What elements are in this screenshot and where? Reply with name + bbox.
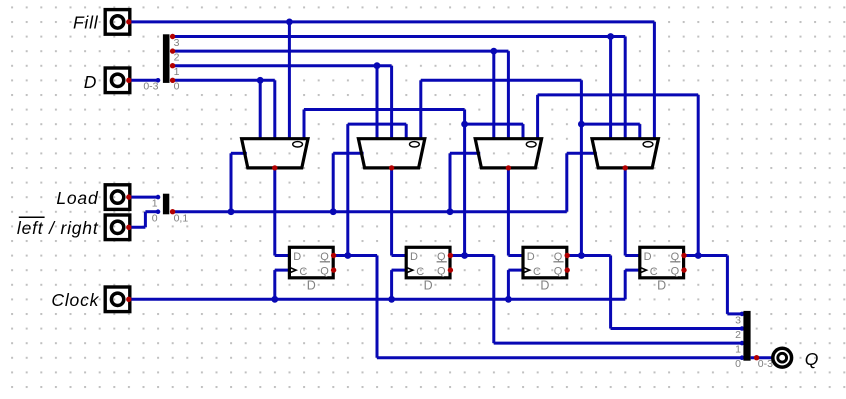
junction bit2 (490, 48, 497, 55)
wire FF1 Q to splitter horizontal (494, 342, 742, 345)
wire bit2 to MUX2 in3 (492, 51, 495, 139)
wire end dot (156, 209, 161, 214)
svg-text:C: C (650, 266, 658, 278)
wire Q1 to MUX0 in0 drop (303, 110, 306, 139)
label FF3 pin Q (671, 266, 680, 278)
wire FF1 Q to splitter drop (492, 256, 495, 344)
label FF2 pin D (527, 251, 535, 263)
label FF2 pin Qn (553, 251, 563, 263)
junction select MUX2 (447, 208, 454, 215)
wire left/right horizontal (129, 226, 146, 229)
svg-text:2: 2 (174, 52, 180, 64)
label S2 in1 (152, 198, 158, 210)
label left/right (17, 217, 99, 238)
wire select riser MUX1 (332, 153, 335, 211)
wire Q1 to MUX0 in0 horizontal (304, 108, 465, 111)
wire Q2 to MUX1 in0 horizontal (421, 79, 582, 82)
label FF0 pin Qn (320, 251, 330, 263)
wire clock riser FF2 (507, 270, 510, 299)
svg-text:Q: Q (437, 251, 446, 263)
wire Q1 branch horizontal (465, 123, 523, 126)
wire bit1 to MUX1 in2 (390, 66, 393, 139)
wire Q2 to MUX1 in0 drop (419, 80, 422, 138)
label S3 in3 (735, 314, 741, 326)
wire select riser MUX3 (565, 153, 568, 211)
wire FF3 Q to splitter drop (726, 256, 729, 314)
label Q (805, 349, 819, 369)
label FF3 pin D (644, 251, 652, 263)
svg-text:0-3: 0-3 (758, 358, 773, 370)
label S1 0-3 (143, 81, 158, 93)
label FF1 pin D (410, 251, 418, 263)
wire left/right riser (144, 212, 147, 228)
svg-text:D: D (410, 251, 418, 263)
wire Q0 branch horizontal (348, 123, 406, 126)
label FF3 pin C (650, 266, 658, 278)
svg-text:D: D (424, 278, 433, 292)
label Clock (51, 290, 99, 310)
wire end dot (740, 355, 745, 360)
splitter S2 bar (163, 194, 169, 215)
input pin Clock (105, 287, 130, 312)
label S3 in2 (735, 329, 741, 341)
multiplexer MUX0 (242, 139, 308, 168)
wire FF0 Q to splitter drop (376, 256, 379, 358)
wire MUX1 to FF1 D (392, 254, 407, 257)
junction select MUX0 (228, 208, 235, 215)
wire bit1 to MUX1 in3 (376, 66, 379, 139)
wire MUX3 to FF3 D (625, 254, 640, 257)
wire clock to FF2 C (508, 269, 523, 272)
wire select entry MUX0 (231, 152, 247, 155)
junction bit0 (257, 77, 264, 84)
multiplexer MUX1 (358, 139, 424, 168)
junction bit3 (607, 33, 614, 40)
multiplexer MUX2 (475, 139, 541, 168)
wire select entry MUX3 (567, 152, 597, 155)
multiplexer MUX3 (592, 139, 658, 168)
wire Q1 to MUX2 in1 drop (522, 124, 525, 139)
wire clock riser FF1 (390, 270, 393, 299)
wire select entry MUX1 (333, 152, 363, 155)
wire end dot (156, 195, 161, 200)
flip-flop FF0 (289, 247, 333, 277)
wire end dot (740, 326, 745, 331)
wire Q3 to MUX2 in0 drop (536, 95, 539, 139)
label FF1 pin C (416, 266, 424, 278)
splitter S1 bar (163, 34, 170, 83)
input pin left/right (105, 215, 130, 240)
svg-text:C: C (533, 266, 541, 278)
label S3 in1 (735, 344, 741, 356)
label FF1 name (424, 278, 433, 292)
svg-text:Fill: Fill (73, 13, 99, 33)
wire MUX1 output drop (390, 168, 393, 256)
wire Fill drop to MUX0 in1 (288, 22, 291, 139)
label FF2 pin C (533, 266, 541, 278)
wire bit0 horizontal (173, 79, 275, 82)
label S1 out3 (174, 37, 180, 49)
wire Q2 to MUX3 in1 drop (638, 124, 641, 139)
wire bit0 to MUX0 in2 (273, 80, 276, 138)
label FF0 pin Q (320, 266, 329, 278)
wire bit3 horizontal (173, 35, 626, 38)
flip-flop FF1 (406, 247, 450, 277)
wire end dot (740, 312, 745, 317)
wire clock line (129, 298, 625, 301)
input pin Load (105, 185, 130, 210)
label FF1 pin Q (437, 266, 446, 278)
junction FF0 Q (344, 252, 351, 259)
label S1 out1 (174, 66, 180, 78)
wire FF2 Q horizontal (567, 254, 611, 257)
junction clock FF0 (271, 296, 278, 303)
wire FF2 Q to splitter horizontal (611, 327, 742, 330)
junction bit1 (374, 62, 381, 69)
wire FF2 Q to splitter drop (609, 256, 612, 329)
svg-text:D: D (644, 251, 652, 263)
svg-text:Q: Q (671, 251, 680, 263)
wire clock to FF0 C (275, 269, 290, 272)
wire Q3 riser (697, 95, 700, 256)
wire FF0 Q to splitter horizontal (377, 356, 742, 359)
wire FF3 Q to splitter horizontal (727, 312, 742, 315)
label Load (56, 188, 99, 208)
svg-text:3: 3 (735, 314, 741, 326)
wire bit1 horizontal (173, 64, 392, 67)
input pin D (105, 68, 130, 93)
svg-text:0: 0 (174, 81, 180, 93)
junction Fill/MUX0 (286, 19, 293, 26)
wire Fill horizontal (129, 20, 655, 23)
svg-text:Q: Q (805, 349, 819, 369)
label FF0 name (307, 278, 316, 292)
junction clock FF2 (505, 296, 512, 303)
junction FF1 Q (461, 252, 468, 259)
wire Q3 to MUX2 in0 horizontal (538, 93, 699, 96)
label FF3 pin Qn (670, 251, 680, 263)
svg-text:Q: Q (554, 251, 563, 263)
junction FF2 Q (578, 252, 585, 259)
junction Q2 branch (578, 121, 585, 128)
svg-text:0: 0 (735, 358, 741, 370)
wire bit3 to MUX3 in2 (624, 37, 627, 139)
wire bit3 to MUX3 in3 (609, 37, 612, 139)
svg-text:C: C (299, 266, 307, 278)
label FF3 name (657, 278, 666, 292)
wire end dot (156, 78, 161, 83)
wire bit2 to MUX2 in2 (507, 51, 510, 139)
wire FF1 Q horizontal (450, 254, 494, 257)
svg-text:D: D (540, 278, 549, 292)
wire FF3 Q horizontal (684, 254, 728, 257)
label FF2 name (540, 278, 549, 292)
svg-text:0: 0 (152, 212, 158, 224)
wire MUX0 to FF0 D (275, 254, 290, 257)
wire Q2 riser (580, 80, 583, 255)
wire splitter to Q pin (751, 356, 772, 359)
wire select riser MUX0 (230, 153, 233, 211)
label S2 in0 (152, 212, 158, 224)
svg-text:1: 1 (152, 198, 158, 210)
wire Q2 branch horizontal (581, 123, 639, 126)
wire Fill drop to MUX3 in0 (653, 22, 656, 139)
label S3 in0 (735, 358, 741, 370)
junction FF3 Q (695, 252, 702, 259)
wire end dot (740, 341, 745, 346)
wire clock riser FF3 (624, 270, 627, 299)
label S2 out (174, 212, 189, 224)
svg-text:D: D (84, 72, 97, 92)
svg-text:D: D (527, 251, 535, 263)
svg-text:3: 3 (174, 37, 180, 49)
pin dots (red) (126, 19, 759, 360)
label FF0 pin D (293, 251, 301, 263)
wire Q1 riser (463, 110, 466, 256)
wire Q0 riser (346, 124, 349, 255)
wire bit0 to MUX0 in3 (259, 80, 262, 138)
svg-text:D: D (657, 278, 666, 292)
wire MUX3 output drop (624, 168, 627, 256)
flip-flop FF3 (640, 247, 684, 277)
svg-text:Clock: Clock (51, 290, 99, 310)
svg-text:D: D (307, 278, 316, 292)
svg-text:Load: Load (56, 188, 99, 208)
label D (84, 72, 97, 92)
wire Q0 to MUX1 in1 drop (405, 124, 408, 139)
label S1 out0 (174, 81, 180, 93)
junction clock FF1 (388, 296, 395, 303)
wire clock riser FF0 (273, 270, 276, 299)
input pin Fill (105, 10, 130, 35)
wire MUX2 output drop (507, 168, 510, 256)
output pin Q (773, 348, 792, 367)
wire MUX2 to FF2 D (508, 254, 523, 257)
wire Load to splitter (129, 196, 158, 199)
svg-text:D: D (293, 251, 301, 263)
wire clock to FF3 C (625, 269, 640, 272)
svg-text:Q: Q (554, 266, 563, 278)
wire select line (173, 210, 567, 213)
svg-text:left / right: left / right (17, 218, 99, 238)
label S1 out2 (174, 52, 180, 64)
wire left/right to splitter (145, 210, 158, 213)
label Fill (73, 13, 99, 33)
svg-text:Q: Q (671, 266, 680, 278)
svg-text:Q: Q (320, 251, 329, 263)
label S3 out 0-3 (758, 358, 773, 370)
junction Q1 branch (461, 121, 468, 128)
splitter S3 bar (743, 311, 750, 361)
svg-text:Q: Q (320, 266, 329, 278)
label FF1 pin Qn (437, 251, 447, 263)
svg-text:Q: Q (437, 266, 446, 278)
junction select MUX1 (330, 208, 337, 215)
wire select entry MUX2 (450, 152, 480, 155)
wire bit2 horizontal (173, 50, 509, 53)
wire FF0 Q horizontal (333, 254, 377, 257)
svg-text:0-3: 0-3 (143, 81, 158, 93)
wire select riser MUX2 (449, 153, 452, 211)
wire D to splitter (129, 79, 158, 82)
label FF0 pin C (299, 266, 307, 278)
svg-text:0,1: 0,1 (174, 212, 189, 224)
flip-flop FF2 (523, 247, 567, 277)
svg-text:2: 2 (735, 329, 741, 341)
svg-text:1: 1 (735, 344, 741, 356)
svg-text:C: C (416, 266, 424, 278)
wire MUX0 output drop (273, 168, 276, 256)
label FF2 pin Q (554, 266, 563, 278)
wire clock to FF1 C (392, 269, 407, 272)
svg-text:1: 1 (174, 66, 180, 78)
